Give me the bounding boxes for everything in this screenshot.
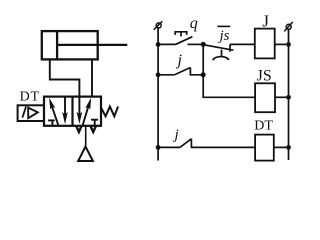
svg-text:js: js: [218, 28, 230, 44]
timer coil JS: [255, 83, 275, 112]
right position down arrowhead: [77, 112, 83, 124]
pipe from cylinder cap port to valve: [50, 59, 80, 96]
junction dot top branch: [201, 42, 206, 47]
row3 wire left of j: [158, 146, 180, 148]
junction dot left row2: [156, 72, 161, 77]
left position down arrowhead: [62, 112, 68, 124]
svg-text:DT: DT: [254, 119, 273, 134]
exhaust triangle: [78, 147, 93, 162]
junction dot right JS: [286, 95, 291, 100]
valve position divider: [71, 97, 73, 126]
top row wire left of q: [158, 43, 176, 45]
contact j step row2: [190, 68, 203, 75]
right position diagonal arrowhead: [85, 98, 91, 110]
left rail: [157, 28, 159, 161]
right position diagonal arrow shaft: [83, 106, 89, 125]
svg-text:J: J: [262, 12, 269, 31]
left position diagonal arrowhead: [49, 98, 55, 110]
label js overbar: [217, 25, 230, 27]
contact js blade: [203, 45, 233, 51]
junction dot left row3: [156, 145, 161, 150]
relay coil J: [255, 29, 275, 59]
contact q operator stem: [180, 32, 182, 37]
spring (return) W: [101, 107, 118, 117]
svg-text:DT: DT: [20, 89, 40, 104]
right position down arrow shaft: [78, 97, 80, 117]
junction dot right row3: [286, 145, 291, 150]
junction dot row2 right: [201, 72, 206, 77]
svg-text:JS: JS: [257, 67, 272, 84]
right position blocked port T: [91, 119, 98, 121]
contact q operator T bar with end ticks: [175, 32, 187, 35]
left position diagonal arrow shaft: [51, 103, 59, 125]
svg-text:q: q: [190, 15, 198, 32]
time delay stem: [221, 50, 223, 57]
junction dot left top: [156, 42, 161, 47]
wire DT to right rail: [274, 146, 289, 148]
exhaust line: [85, 126, 87, 147]
piston: [56, 31, 58, 59]
time delay dome: [213, 57, 229, 61]
contact q blade: [176, 37, 193, 45]
right rail: [288, 29, 290, 160]
contact j blade row2: [175, 68, 191, 75]
wire JS to right rail: [275, 96, 289, 98]
solenoid box: [18, 105, 44, 121]
piston rod: [57, 44, 127, 46]
left position down arrow shaft: [64, 97, 66, 118]
contact js right terminal hook: [229, 44, 231, 51]
right supply phi symbol: [286, 24, 291, 29]
svg-text:j: j: [176, 52, 183, 69]
valve body: [44, 97, 101, 126]
row2 wire left of j: [158, 74, 175, 76]
wire q to junction: [188, 43, 204, 45]
left supply phi symbol: [156, 23, 161, 28]
wire js to J coil: [230, 43, 255, 45]
port chevron left below valve: [76, 126, 81, 132]
vertical branch wire to JS row: [203, 44, 255, 97]
cylinder body: [42, 31, 98, 59]
contact j step row3: [191, 139, 255, 148]
contact j blade row3: [180, 139, 191, 148]
solenoid triangle: [28, 108, 38, 119]
left position blocked port T: [48, 119, 55, 121]
port chevron right below valve: [90, 126, 96, 132]
wire J to right rail: [275, 43, 289, 45]
junction dot right top: [286, 42, 291, 47]
solenoid coil DT: [255, 135, 274, 161]
pipe from cylinder rod port to valve: [91, 59, 93, 96]
solenoid diagonal: [22, 107, 26, 118]
